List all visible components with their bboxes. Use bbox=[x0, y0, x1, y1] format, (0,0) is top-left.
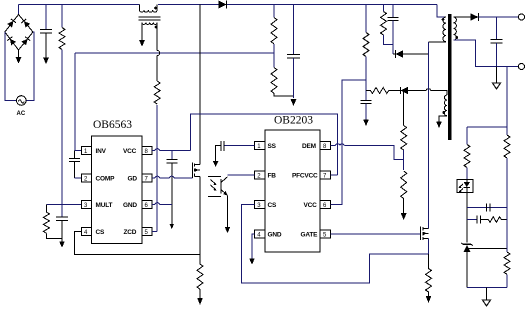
pin box U2-2 bbox=[255, 171, 265, 180]
wire SS cap to ground bbox=[216, 146, 222, 162]
pin box U2-1 bbox=[255, 142, 265, 151]
wire U1 ZCD pin to sense resistor bbox=[152, 231, 157, 233]
wire top HV bus left bbox=[19, 4, 140, 6]
svg-text:GATE: GATE bbox=[301, 232, 319, 239]
ground arrow DEM divider bbox=[401, 213, 407, 220]
terminal output- circle bbox=[518, 63, 524, 69]
pin box U2-3 bbox=[255, 201, 265, 210]
pin box U1-3 bbox=[81, 201, 91, 210]
dot T2 secondary polarity bbox=[455, 36, 458, 39]
wire bridge right to AC bbox=[26, 32, 34, 101]
resistor snubber zigzag bbox=[381, 12, 387, 36]
capacitor U1 VCC decoupling bbox=[167, 151, 178, 226]
diode D2 snubber clamp bbox=[393, 50, 403, 58]
capacitor PFC bulk bottom stub bbox=[293, 58, 295, 98]
wire D2 to Q2 drain node bbox=[403, 53, 429, 55]
svg-text:AC: AC bbox=[17, 111, 26, 117]
wire bridge left to AC bbox=[5, 32, 17, 101]
wire feedback bottom rail bbox=[467, 287, 507, 289]
pin box U1-4 bbox=[81, 228, 91, 237]
wire U2 GND pin down bbox=[252, 234, 255, 259]
svg-text:PFCVCC: PFCVCC bbox=[292, 173, 318, 180]
bridge rectifier BD1 diamond bbox=[5, 15, 33, 51]
wire T2 aux bottom to ground bbox=[439, 116, 447, 122]
wire T2 secondary top to output diode bbox=[454, 16, 471, 18]
hop arc DEM over PFCVCC vertical bbox=[335, 144, 340, 146]
ground arrow SS cap bbox=[213, 161, 219, 167]
wire U1 GD pin to MOSFET gate (hops) bbox=[152, 177, 193, 179]
PFC inductor T1 primary winding bbox=[140, 5, 158, 13]
wire U1 GND pin to cap ground line bbox=[152, 204, 172, 206]
op IC U1 OB6563 body bbox=[92, 136, 142, 244]
wire opto LED cathode down to TL431 bbox=[466, 193, 468, 243]
wire MULT row horizontal bbox=[46, 204, 81, 206]
wire feedback top horizontal bbox=[467, 126, 507, 128]
resistor DEM divider lower bbox=[401, 171, 407, 213]
svg-text:MULT: MULT bbox=[96, 202, 113, 209]
ground arrow below bridge bbox=[16, 50, 22, 64]
capacitor U2 soft start bbox=[221, 141, 224, 151]
resistor VCC charge zigzag horizontal bbox=[366, 88, 393, 94]
wire U2 GATE pin to Q2 gate bbox=[330, 233, 420, 235]
resistor Q2 source sense bbox=[426, 254, 432, 296]
capacitor PFC bulk plates bbox=[287, 55, 300, 59]
wire opto emitter to ground bbox=[227, 195, 229, 227]
wire divider bottom to ground node bbox=[274, 93, 294, 96]
ground arrow below MULT RC bbox=[59, 239, 65, 248]
wire T2 primary bottom to drain bbox=[429, 41, 447, 43]
terminal output+ circle bbox=[518, 14, 524, 20]
svg-text:GND: GND bbox=[123, 202, 137, 209]
wire TL431 anode to bottom rail bbox=[466, 252, 468, 288]
T1 core bars bbox=[139, 17, 161, 20]
wire Q2 source to CS node bbox=[428, 238, 430, 254]
svg-text:DEM: DEM bbox=[302, 143, 316, 150]
transistor Q2 flyback MOSFET bbox=[421, 227, 429, 241]
wire ZCD resistor down to ZCD pin row bbox=[156, 105, 158, 232]
resistor output divider upper zigzag bbox=[271, 18, 277, 44]
wire FB divider bottom bbox=[506, 275, 508, 288]
transformer T2 aux winding bbox=[444, 95, 447, 116]
capacitor comp row1 bbox=[487, 204, 490, 212]
resistor comp row2 zigzag bbox=[480, 217, 507, 223]
T2 core bars bbox=[448, 14, 451, 140]
svg-text:FB: FB bbox=[268, 173, 277, 180]
wire U1 VCC pin to rail (hop over ZCD line) bbox=[152, 150, 191, 152]
ground arrow T1 aux bbox=[139, 40, 145, 47]
pin box U2-4 bbox=[255, 230, 265, 239]
wire U2 DEM pin to divider (hops two verticals) bbox=[330, 146, 403, 160]
capacitor VCC supply bbox=[361, 100, 372, 103]
wire resistor to MULT node bbox=[61, 50, 63, 205]
capacitor input filter plates bbox=[40, 30, 52, 34]
wire D4 to output+ terminal bbox=[478, 16, 518, 18]
ground arrow VCC supply cap bbox=[363, 120, 369, 127]
wire U2 CS pin sense loop bbox=[242, 205, 429, 284]
resistor startup zigzag bbox=[363, 33, 369, 57]
wire FB divider middle bbox=[506, 158, 508, 252]
svg-text:CS: CS bbox=[268, 202, 277, 209]
wire U2 SS pin to soft-start cap bbox=[224, 145, 255, 147]
wire INV feedback bus horizontal bbox=[75, 52, 274, 54]
wire output- to chassis ground bbox=[496, 67, 498, 84]
transformer T2 primary winding bbox=[443, 17, 446, 42]
optocoupler U3 LED bbox=[464, 179, 470, 192]
svg-text:INV: INV bbox=[96, 148, 107, 155]
ground arrow PFC bulk node bbox=[291, 99, 297, 106]
hop arc aux line over INV bus bbox=[157, 51, 160, 56]
pin box U2-5 bbox=[320, 230, 330, 239]
TL431 shunt regulator bbox=[461, 243, 472, 252]
ground arrow below input capacitor bbox=[43, 58, 49, 65]
wire feedback comp row1 bbox=[467, 207, 507, 209]
diode D3 aux-to-VCC bbox=[392, 87, 408, 94]
wire startup resistor to VCC supply node bbox=[365, 57, 367, 101]
svg-text:GND: GND bbox=[268, 232, 282, 239]
ground arrow U1 VCC cap bbox=[170, 224, 174, 229]
hop arc GD over VCC cap line bbox=[170, 176, 175, 178]
bridge diode D-topright bbox=[21, 19, 30, 28]
ground arrow Q2 sense resistor bbox=[426, 296, 432, 303]
pin box U2-7 bbox=[320, 171, 330, 180]
pin box U1-1 bbox=[81, 147, 91, 156]
resistor input top stub bbox=[61, 5, 63, 28]
ground arrow Q1 CS resistor bbox=[197, 298, 203, 305]
wire T1 aux right leg to ZCD resistor (hop over INV bus) bbox=[156, 23, 158, 82]
wire VCC cap to ground bbox=[365, 104, 367, 120]
diode boost D1 bbox=[219, 1, 227, 9]
wire PFC MOSFET drain vertical bbox=[199, 5, 201, 165]
wire Q1 drain stub bbox=[199, 162, 201, 165]
pin box U2-8 bbox=[320, 142, 330, 151]
pin box U1-2 bbox=[81, 174, 91, 183]
wire U2 VCC pin to supply node bbox=[330, 80, 366, 205]
AC source bbox=[17, 96, 27, 106]
dot T2 aux polarity bbox=[442, 111, 445, 114]
ground arrow opto emitter bbox=[225, 227, 231, 233]
transformer T2 secondary winding bbox=[454, 17, 457, 40]
resistor MULT lower (parallel RC) zigzag bbox=[43, 205, 62, 239]
resistor FB divider lower bbox=[504, 252, 510, 274]
ground arrow T2 aux bbox=[436, 122, 442, 129]
ground triangle feedback bbox=[483, 300, 491, 306]
dot T1 primary polarity bbox=[154, 7, 157, 10]
resistor input MULT divider upper zigzag bbox=[59, 28, 65, 50]
resistor Q1 CS sense zigzag bbox=[197, 255, 203, 299]
bridge diode D-botleft bbox=[7, 37, 16, 46]
resistor startup HV stub bbox=[365, 5, 367, 33]
wire Q2 drain vertical bbox=[428, 42, 430, 229]
wire DEM divider middle bbox=[403, 150, 405, 170]
svg-text:GD: GD bbox=[128, 176, 138, 183]
svg-text:CS: CS bbox=[96, 229, 105, 236]
T1 aux winding bbox=[142, 23, 157, 25]
capacitor MULT (parallel RC) bbox=[56, 205, 68, 239]
hop arc DEM over VCC vertical bbox=[340, 144, 344, 146]
capacitor comp row2 bbox=[477, 216, 480, 224]
optocoupler U3 phototransistor bbox=[208, 176, 228, 196]
wire TL431 ref to divider mid bbox=[467, 248, 507, 250]
bridge diode D-topleft bbox=[7, 19, 16, 28]
wire D3 to flyback aux (hop over drain) bbox=[408, 91, 447, 96]
wire feedback comp row2 bbox=[467, 219, 477, 221]
wire U2 FB pin to optocoupler collector bbox=[228, 174, 255, 176]
svg-text:VCC: VCC bbox=[304, 202, 318, 209]
transistor Q1 PFC MOSFET bbox=[193, 163, 201, 179]
dot T1 aux polarity bbox=[155, 26, 158, 29]
pin box U1-6 bbox=[142, 201, 152, 210]
wire snubber R bottom jog bbox=[384, 35, 394, 54]
resistor FB divider upper bbox=[504, 127, 510, 158]
wire divider middle (junction with INV bus) bbox=[273, 44, 275, 68]
diode D4 output rectifier bbox=[471, 13, 479, 21]
wire flyback primary top from HV bus bbox=[437, 5, 446, 18]
resistor opto LED series bbox=[464, 127, 470, 179]
pin box U2-6 bbox=[320, 201, 330, 210]
wire feedback tap from output- bbox=[506, 67, 508, 128]
wire INV feedback bus vertical drop bbox=[75, 53, 81, 151]
wire Q1 source down to CS node bbox=[199, 177, 201, 255]
capacitor output filter bbox=[491, 17, 503, 67]
svg-text:VCC: VCC bbox=[123, 148, 137, 155]
pin box U1-7 bbox=[142, 174, 152, 183]
optocoupler U3 light arrows bbox=[211, 180, 217, 191]
svg-text:ZCD: ZCD bbox=[124, 229, 137, 236]
optocoupler U3 LED emission arrows bbox=[459, 184, 464, 193]
capacitor input filter bottom stub bbox=[45, 33, 47, 58]
resistor DEM divider upper bbox=[401, 91, 407, 151]
wire U2 PFCVCC pin to rail bbox=[330, 174, 337, 176]
wire COMP pin to capacitor bbox=[75, 177, 82, 179]
hop arc GND over ZCD vertical bbox=[155, 203, 160, 205]
svg-text:OB2203: OB2203 bbox=[274, 115, 313, 127]
ground triangle secondary bbox=[493, 83, 501, 89]
svg-text:OB6563: OB6563 bbox=[93, 119, 132, 131]
resistor ZCD sense zigzag bbox=[154, 81, 160, 104]
optocoupler U3 LED box bbox=[457, 179, 473, 192]
hop arc aux wire over Q2 drain bbox=[426, 89, 431, 91]
hop arc VCC line over ZCD vertical bbox=[155, 149, 160, 151]
resistor output divider upper stub bbox=[273, 5, 275, 18]
wire top HV bus right bbox=[158, 4, 437, 6]
ground arrow U2 GND bbox=[249, 259, 255, 265]
pin box U1-5 bbox=[142, 228, 152, 237]
bridge diode D-botright bbox=[21, 37, 30, 46]
capacitor PFC bulk top stub bbox=[293, 5, 295, 55]
wire VCC rail from OB6563 to OB2203 bbox=[191, 114, 338, 175]
resistor snubber stub bbox=[383, 5, 385, 12]
wire bottom rail to chassis ground bbox=[486, 288, 488, 301]
capacitor INV-COMP compensation bbox=[69, 151, 80, 179]
capacitor input filter top stub bbox=[45, 5, 47, 30]
capacitor snubber bbox=[388, 5, 399, 45]
op IC U2 OB2203 body bbox=[265, 130, 320, 252]
wire U1 CS pin loop to PFC MOSFET source bbox=[75, 232, 200, 255]
pin box U1-8 bbox=[142, 147, 152, 156]
dot T2 primary polarity bbox=[442, 18, 445, 21]
resistor output divider lower zigzag bbox=[271, 68, 277, 94]
svg-text:COMP: COMP bbox=[96, 176, 116, 183]
wire T2 secondary bottom to output- bbox=[454, 40, 519, 66]
wire T1 aux left leg bbox=[141, 23, 143, 41]
svg-text:SS: SS bbox=[268, 143, 277, 150]
wire bridge top to bus bbox=[18, 5, 20, 15]
hop arc GD over ZCD vertical bbox=[155, 176, 160, 178]
